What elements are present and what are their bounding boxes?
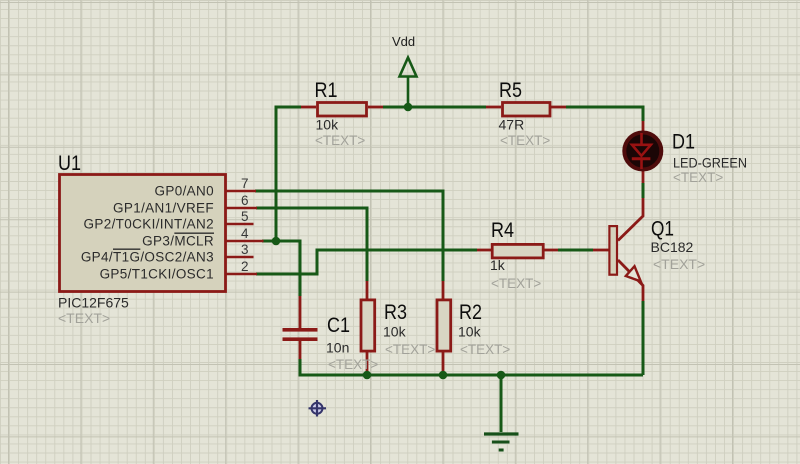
- svg-text:U1: U1: [58, 152, 81, 175]
- pin 2 stub: [226, 273, 258, 276]
- svg-text:GP5/T1CKI/OSC1: GP5/T1CKI/OSC1: [100, 267, 214, 282]
- svg-text:D1: D1: [672, 131, 695, 154]
- wire U1 pin4 to C1 top: [262, 241, 300, 296]
- wire U1 pin6 to R3 top: [256, 208, 367, 281]
- svg-text:10k: 10k: [316, 116, 340, 132]
- resistor R1: [301, 79, 383, 148]
- svg-text:R4: R4: [491, 219, 514, 242]
- pin numbers: [241, 176, 249, 274]
- svg-text:<TEXT>: <TEXT>: [673, 170, 723, 185]
- svg-text:<TEXT>: <TEXT>: [58, 310, 110, 326]
- wire Q1 emitter to ground bus: [642, 301, 645, 375]
- wire R5-right to D1 anode: [566, 107, 643, 121]
- svg-text:C1: C1: [327, 314, 350, 337]
- svg-text:5: 5: [241, 209, 249, 224]
- capacitor C1: [283, 296, 379, 372]
- junction dot R2 bottom: [439, 371, 448, 380]
- svg-text:7: 7: [241, 176, 249, 191]
- resistor R4: [477, 219, 558, 291]
- svg-text:<TEXT>: <TEXT>: [653, 256, 705, 272]
- svg-text:4: 4: [241, 226, 249, 241]
- IC U1 PIC12F675: [58, 152, 264, 326]
- pin 5 stub: [226, 223, 254, 226]
- svg-text:<TEXT>: <TEXT>: [500, 133, 550, 148]
- wire ground stem: [500, 375, 503, 432]
- ground: [484, 434, 519, 450]
- svg-text:10n: 10n: [326, 340, 349, 356]
- pin 6 stub: [226, 207, 258, 210]
- svg-text:3: 3: [241, 242, 249, 257]
- transistor Q1 BC182: [593, 198, 705, 301]
- svg-text:R2: R2: [459, 301, 482, 324]
- wire U1 pin2 to R4 left: [256, 250, 477, 274]
- junction dot ground tap: [497, 371, 506, 380]
- svg-text:GP4/T1G/OSC2/AN3: GP4/T1G/OSC2/AN3: [81, 250, 214, 265]
- svg-text:GP0/AN0: GP0/AN0: [155, 184, 214, 199]
- wire D1 cathode to Q1 collector: [642, 183, 645, 198]
- wire net R1-left to U1 pin4 junction: [276, 107, 301, 241]
- svg-text:Q1: Q1: [651, 218, 674, 241]
- wire R4 right to Q1 base: [558, 249, 593, 252]
- junction dot pin4 node: [272, 237, 281, 246]
- svg-text:<TEXT>: <TEXT>: [385, 342, 435, 357]
- svg-text:2: 2: [241, 259, 249, 274]
- svg-text:<TEXT>: <TEXT>: [328, 357, 378, 372]
- svg-text:GP2/T0CKI/INT/AN2: GP2/T0CKI/INT/AN2: [84, 217, 214, 232]
- diode D1 LED-GREEN: [624, 121, 747, 185]
- pin 3 stub: [226, 256, 254, 259]
- svg-text:<TEXT>: <TEXT>: [315, 133, 365, 148]
- resistor R5: [486, 79, 566, 148]
- svg-text:10k: 10k: [458, 324, 482, 340]
- svg-text:R1: R1: [315, 79, 338, 102]
- wire U1 pin7 to R2 top: [255, 191, 443, 281]
- resistor R3: [361, 281, 435, 375]
- svg-text:47R: 47R: [499, 116, 525, 132]
- pin 7 stub: [226, 190, 257, 193]
- power symbol Vdd: [400, 58, 417, 108]
- resistor R2: [437, 281, 510, 375]
- junction dot Vdd rail: [404, 103, 413, 112]
- svg-text:<TEXT>: <TEXT>: [460, 342, 510, 357]
- svg-text:1k: 1k: [490, 257, 506, 273]
- svg-text:R5: R5: [499, 79, 522, 102]
- svg-text:10k: 10k: [383, 324, 407, 340]
- junction dot R3 bottom: [363, 371, 372, 380]
- svg-text:Vdd: Vdd: [392, 34, 415, 49]
- svg-text:LED-GREEN: LED-GREEN: [673, 155, 747, 171]
- wire ground bus: [300, 359, 643, 375]
- svg-text:PIC12F675: PIC12F675: [58, 294, 129, 310]
- pin 4 stub: [226, 240, 264, 243]
- svg-text:BC182: BC182: [651, 239, 694, 255]
- wire Vdd rail R1-right to R5-left: [383, 106, 486, 109]
- svg-text:<TEXT>: <TEXT>: [491, 276, 541, 291]
- pin names: [81, 184, 214, 282]
- svg-text:6: 6: [241, 193, 249, 208]
- svg-text:GP3/MCLR: GP3/MCLR: [142, 234, 214, 249]
- svg-text:R3: R3: [384, 301, 407, 324]
- origin marker (blue crosshair): [309, 400, 327, 417]
- svg-text:GP1/AN1/VREF: GP1/AN1/VREF: [113, 201, 214, 216]
